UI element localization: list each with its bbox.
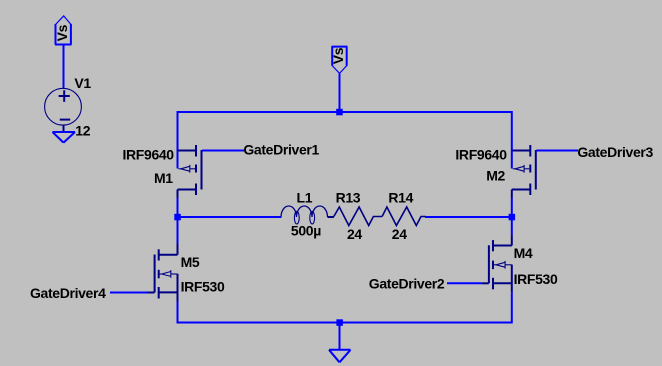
voltage source V1 circle (45, 88, 82, 125)
junction at Vs / top rail (336, 109, 343, 116)
V1 bottom lead (63, 125, 65, 132)
svg-text:GateDriver3: GateDriver3 (577, 144, 653, 160)
wire GateDriver2 to M4 gate (447, 282, 481, 284)
bottom rail wire (177, 322, 513, 324)
svg-text:R14: R14 (388, 190, 413, 206)
resistor R13 (334, 207, 382, 226)
svg-text:R13: R13 (336, 190, 361, 206)
inductor L1 (281, 206, 334, 224)
svg-text:GateDriver2: GateDriver2 (369, 276, 445, 292)
V1 minus sign (60, 119, 70, 121)
left column wire top rail to M1 (177, 111, 179, 169)
ground symbol (bottom) (329, 350, 351, 363)
svg-text:Vs: Vs (330, 47, 346, 64)
svg-text:M2: M2 (486, 168, 505, 184)
wire flag to top rail (339, 74, 341, 113)
svg-text:V1: V1 (74, 75, 91, 91)
transistor M2 (IRF9640 pmos) (512, 145, 536, 198)
top rail wire (177, 111, 513, 113)
wire M2 gate to GateDriver3 (536, 150, 578, 152)
svg-text:GateDriver1: GateDriver1 (243, 142, 319, 158)
wire bottom rail to ground (339, 323, 341, 350)
wire M1 gate to GateDriver1 (202, 150, 244, 152)
transistor M5 (IRF530 nmos) (147, 244, 178, 302)
svg-text:M1: M1 (154, 170, 173, 186)
svg-text:IRF9640: IRF9640 (455, 146, 507, 162)
wire mid rail to M4 drain (511, 217, 513, 234)
svg-text:IRF9640: IRF9640 (123, 147, 175, 163)
wire M1 drain to mid rail (177, 198, 179, 218)
svg-text:12: 12 (75, 123, 90, 139)
right column wire top rail to M2 (511, 111, 513, 169)
V1 plus sign (59, 90, 70, 102)
wire M5 source to bottom rail (177, 302, 179, 324)
svg-text:24: 24 (347, 226, 362, 242)
transistor M4 (IRF530 nmos) (481, 234, 512, 292)
svg-text:24: 24 (392, 226, 407, 242)
svg-text:GateDriver4: GateDriver4 (30, 285, 106, 301)
svg-text:Vs: Vs (54, 24, 70, 41)
net flag Vs (top-left) (55, 16, 72, 45)
svg-text:M4: M4 (514, 245, 533, 261)
wire M2 drain to mid rail (511, 198, 513, 218)
svg-text:M5: M5 (181, 254, 200, 270)
transistor M1 (IRF9640 pmos) (178, 145, 202, 198)
wire GateDriver4 to M5 gate (110, 292, 147, 294)
ground under V1 (53, 132, 76, 143)
junction at ground / bottom rail (336, 319, 343, 326)
mid rail wire right segment (425, 216, 512, 218)
junction at M1 drain / mid rail (174, 214, 181, 221)
wire flag to V1 (63, 45, 65, 90)
svg-text:IRF530: IRF530 (514, 271, 558, 287)
junction at M2 drain / mid rail (509, 214, 515, 221)
net flag Vs (top-middle) (332, 47, 348, 74)
wire M4 source to bottom rail (511, 292, 513, 323)
mid rail wire left segment (178, 216, 282, 218)
svg-text:IRF530: IRF530 (181, 279, 225, 295)
wire mid rail to M5 drain (177, 217, 179, 244)
svg-text:L1: L1 (297, 190, 313, 206)
svg-text:500µ: 500µ (291, 223, 321, 239)
resistor R14 (382, 207, 426, 226)
